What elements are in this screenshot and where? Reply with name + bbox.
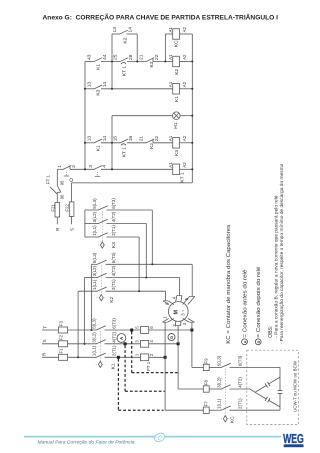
motor lead 2 bbox=[177, 326, 179, 344]
svg-text:22: 22 bbox=[154, 54, 160, 60]
svg-text:F22: F22 bbox=[64, 203, 69, 211]
wire: control rung to K3 coil bbox=[85, 142, 94, 144]
junction dots control bbox=[84, 88, 86, 90]
wire pole R to motor lead 1 bbox=[149, 356, 165, 358]
svg-text:1(L1): 1(L1) bbox=[92, 345, 97, 356]
svg-text:4(T2): 4(T2) bbox=[111, 331, 116, 342]
svg-text:13: 13 bbox=[86, 82, 92, 88]
svg-text:1(L1): 1(L1) bbox=[217, 398, 222, 409]
contactor K3 pole 1 bbox=[85, 209, 98, 211]
motor lead 4 bbox=[178, 278, 180, 296]
wire KC pole3 to capacitor delta bbox=[230, 409, 281, 411]
svg-text:F1: F1 bbox=[59, 348, 64, 354]
svg-text:A2: A2 bbox=[182, 26, 187, 32]
svg-text:3(L2): 3(L2) bbox=[92, 265, 97, 276]
wire to F8 bbox=[178, 388, 203, 390]
svg-text:1: 1 bbox=[57, 165, 63, 168]
fuse F7 bbox=[203, 407, 209, 413]
contactor K2 pole 1 bbox=[97, 260, 107, 264]
svg-text:14: 14 bbox=[128, 27, 134, 33]
K3 mechanism link bbox=[101, 211, 103, 242]
overload FT1 heater 1 bbox=[141, 327, 149, 334]
overload contact FT1 95-96 bbox=[57, 186, 61, 193]
WEG logo bbox=[283, 431, 304, 447]
fuse F22 bbox=[71, 183, 73, 202]
contact K2 21-22 (NC interlock) bbox=[146, 139, 154, 143]
KC mechanism link bbox=[224, 368, 226, 415]
svg-text:4(T2): 4(T2) bbox=[237, 377, 242, 388]
K3 output wires down to motor wires bbox=[107, 209, 153, 211]
svg-text:1(L1): 1(L1) bbox=[92, 225, 97, 236]
svg-text:- Para a conexão B, regular a: - Para a conexão B, regular a nova corre… bbox=[274, 195, 280, 337]
svg-text:3(L2): 3(L2) bbox=[92, 332, 97, 343]
svg-text:K1: K1 bbox=[96, 64, 102, 70]
svg-text:FT 1: FT 1 bbox=[146, 361, 151, 371]
svg-text:21: 21 bbox=[138, 54, 144, 60]
svg-text:13: 13 bbox=[86, 136, 92, 142]
contactor K2 pole 3 bbox=[97, 287, 107, 291]
svg-text:D: D bbox=[169, 336, 174, 339]
svg-text:F21: F21 bbox=[51, 203, 56, 211]
svg-text:KT 1: KT 1 bbox=[122, 147, 128, 158]
svg-text:A: A bbox=[243, 340, 247, 343]
wire KC pole1 to capacitor delta bbox=[230, 366, 281, 368]
svg-text:5(L3): 5(L3) bbox=[217, 355, 222, 366]
svg-text:A1: A1 bbox=[168, 54, 173, 60]
fuse F8 bbox=[203, 386, 209, 392]
svg-text:S: S bbox=[69, 228, 74, 231]
svg-text:A2: A2 bbox=[182, 81, 187, 87]
contactor K1 pole 3 bbox=[96, 353, 106, 357]
wire: node B vertical (upper) bbox=[111, 34, 113, 89]
wire to F7 bbox=[165, 409, 203, 411]
legend: marker A bbox=[242, 339, 248, 345]
svg-text:F2: F2 bbox=[59, 334, 64, 340]
phase line T bbox=[42, 329, 59, 331]
motor lead 1 bbox=[164, 322, 166, 357]
K1 mechanism link bbox=[99, 331, 101, 361]
svg-text:- Para reenergização do capaci: - Para reenergização do capacitor, respe… bbox=[279, 163, 285, 344]
K2 mechanism link bbox=[100, 265, 102, 294]
svg-text:K2: K2 bbox=[109, 296, 115, 302]
wire: node B vertical (lower) bbox=[111, 116, 113, 170]
connection marker A (antes do rele) bbox=[117, 334, 126, 343]
svg-text:FT 1: FT 1 bbox=[46, 174, 51, 184]
K2 actuator bbox=[99, 295, 103, 301]
wire: control right rail bbox=[191, 34, 193, 183]
contact K1 13-14 (seal) bbox=[94, 139, 102, 143]
svg-text:F9: F9 bbox=[204, 358, 209, 364]
tap line D phase R down bbox=[164, 359, 166, 410]
svg-text:A2: A2 bbox=[182, 54, 187, 60]
svg-text:= Conexão depois do relé: = Conexão depois do relé bbox=[256, 266, 262, 337]
KC actuator bbox=[223, 416, 227, 422]
svg-text:3 ~: 3 ~ bbox=[180, 309, 185, 316]
svg-text:14: 14 bbox=[102, 82, 108, 88]
motor lead 3 bbox=[191, 322, 193, 330]
contactor coil K3 bbox=[173, 138, 180, 149]
indicator lamp H1 bbox=[173, 112, 181, 120]
capacitor C2 (delta side) bbox=[255, 392, 266, 399]
svg-text:H1: H1 bbox=[173, 122, 179, 129]
tap squares (D) bbox=[190, 329, 193, 332]
contactor K3 pole 3 bbox=[85, 236, 98, 238]
svg-text:22: 22 bbox=[154, 136, 160, 142]
pushbutton S0 (NC) bbox=[63, 166, 71, 170]
phase line R bbox=[42, 356, 59, 358]
contactor K1 pole 1 bbox=[96, 326, 106, 330]
wire: K2 13-14 bypass branch bbox=[112, 33, 120, 35]
tap line D phase S down bbox=[177, 345, 179, 389]
svg-text:UCW-T ou MCW ou BCW: UCW-T ou MCW ou BCW bbox=[292, 360, 297, 412]
svg-text:OBS:: OBS: bbox=[268, 326, 274, 338]
svg-text:KC: KC bbox=[229, 416, 235, 423]
contactor KC pole 2 bbox=[209, 388, 221, 390]
svg-text:K1: K1 bbox=[96, 145, 102, 151]
svg-text:D: D bbox=[257, 340, 261, 343]
svg-text:A2: A2 bbox=[182, 162, 187, 168]
wire to F9 bbox=[192, 366, 203, 368]
svg-text:5(L3): 5(L3) bbox=[92, 252, 97, 263]
wire: H1 lamp rung bbox=[112, 115, 173, 117]
svg-text:28: 28 bbox=[128, 54, 134, 60]
wire: bottom control feed from F22 to rail bbox=[72, 182, 193, 184]
timed contact KT1 15-18 bbox=[120, 139, 128, 143]
svg-text:= Conexão antes do relé: = Conexão antes do relé bbox=[243, 269, 249, 337]
svg-text:K3: K3 bbox=[174, 150, 180, 156]
pushbutton S1 (NO, start) bbox=[94, 166, 102, 170]
page number badge 25 bbox=[153, 431, 166, 443]
svg-text:K1: K1 bbox=[174, 96, 180, 102]
svg-text:KT 1: KT 1 bbox=[122, 66, 128, 77]
svg-text:A1: A1 bbox=[168, 26, 173, 32]
tap squares (A) bbox=[130, 329, 133, 332]
wire pole T to motor lead 3 bbox=[149, 329, 192, 331]
svg-text:18: 18 bbox=[128, 136, 134, 142]
timed contact KT1 25-28 bbox=[120, 58, 128, 62]
K3 star bar bbox=[84, 210, 86, 237]
svg-text:4(T2): 4(T2) bbox=[111, 265, 116, 276]
dashed tap A phase S bbox=[124, 345, 126, 391]
capacitor C1 (delta side) bbox=[255, 385, 266, 392]
svg-text:5(L3): 5(L3) bbox=[92, 318, 97, 329]
wire: control rung S0-S1-KT1 bbox=[57, 168, 63, 170]
svg-text:KC: KC bbox=[174, 40, 180, 47]
svg-text:13: 13 bbox=[112, 27, 118, 33]
svg-text:6(T3): 6(T3) bbox=[111, 318, 116, 329]
svg-text:K1: K1 bbox=[110, 363, 116, 369]
footer rule bbox=[24, 436, 281, 438]
wire: control rung to K1 coil bbox=[85, 88, 94, 90]
svg-text:F7: F7 bbox=[204, 401, 209, 407]
capacitor bank dashed box bbox=[247, 350, 298, 424]
connection marker D (depois do rele) bbox=[168, 334, 175, 341]
svg-text:6(T3): 6(T3) bbox=[111, 252, 116, 263]
svg-text:4(T2): 4(T2) bbox=[111, 211, 116, 222]
fuse F3 bbox=[59, 327, 68, 333]
svg-text:2(T1): 2(T1) bbox=[111, 345, 116, 356]
svg-text:F3: F3 bbox=[59, 321, 64, 327]
contact K3 13-14 bbox=[94, 85, 102, 89]
svg-text:K2: K2 bbox=[174, 68, 180, 74]
svg-text:95: 95 bbox=[59, 180, 64, 185]
phase line S bbox=[42, 343, 59, 345]
svg-text:Manual Para Correção do Fator: Manual Para Correção do Fator de Potênci… bbox=[38, 439, 135, 445]
wire: node A vertical bbox=[84, 62, 86, 170]
svg-text:F8: F8 bbox=[204, 380, 209, 386]
contactor K1 pole 2 bbox=[96, 340, 106, 344]
legend: marker D bbox=[255, 339, 261, 345]
wire pole S to motor lead 2 bbox=[149, 343, 178, 345]
svg-text:A1: A1 bbox=[168, 135, 173, 141]
FT1 pointer stroke bbox=[50, 187, 57, 194]
svg-text:3(L2): 3(L2) bbox=[217, 377, 222, 388]
contactor KC pole 1 bbox=[209, 366, 221, 368]
svg-text:5(L3): 5(L3) bbox=[92, 198, 97, 209]
contactor coil K1 bbox=[173, 84, 180, 95]
svg-text:2(T1): 2(T1) bbox=[111, 225, 116, 236]
svg-text:3(L2): 3(L2) bbox=[92, 211, 97, 222]
svg-text:A1: A1 bbox=[168, 81, 173, 87]
fuse F21 bbox=[55, 203, 60, 218]
wire KC pole2 to capacitor delta bbox=[230, 388, 251, 390]
motor lead 5 bbox=[191, 264, 193, 296]
svg-text:WEG: WEG bbox=[283, 431, 304, 446]
fuse F2 bbox=[59, 341, 68, 347]
overload FT1 heater 3 bbox=[141, 354, 149, 361]
svg-text:21: 21 bbox=[138, 136, 144, 142]
K2 output wires to motor bbox=[106, 263, 153, 265]
svg-text:96: 96 bbox=[60, 194, 65, 199]
contact K3 21-22 (NC interlock) bbox=[146, 58, 154, 62]
capacitor C3 (delta side) bbox=[279, 377, 281, 390]
svg-text:6(T3): 6(T3) bbox=[111, 198, 116, 209]
fuse F9 bbox=[203, 364, 209, 370]
wire: S0 rung supply from FT1 bbox=[56, 169, 58, 185]
svg-text:K2: K2 bbox=[123, 37, 129, 43]
svg-text:A1: A1 bbox=[168, 162, 173, 168]
contactor K3 pole 2 bbox=[85, 223, 98, 225]
contactor K2 pole 2 bbox=[97, 273, 107, 277]
tap line D phase T down bbox=[191, 332, 193, 368]
svg-text:2(T1): 2(T1) bbox=[111, 279, 116, 290]
svg-text:4: 4 bbox=[102, 165, 108, 168]
svg-text:6(T3): 6(T3) bbox=[237, 355, 242, 366]
motor M 3~ bbox=[168, 302, 188, 322]
K1 actuator bbox=[98, 361, 102, 367]
svg-text:14: 14 bbox=[102, 136, 108, 142]
svg-text:S: S bbox=[42, 339, 47, 342]
svg-text:M: M bbox=[174, 310, 180, 315]
svg-text:Anexo G: CORREÇÃO PARA CHAVE: Anexo G: CORREÇÃO PARA CHAVE DE PARTIDA … bbox=[43, 13, 279, 22]
svg-text:KT 1: KT 1 bbox=[180, 172, 186, 183]
K3 actuator bbox=[100, 242, 104, 248]
svg-text:25: 25 bbox=[112, 54, 118, 60]
fuse F1 bbox=[59, 354, 68, 360]
timer coil KT1 bbox=[173, 164, 180, 175]
overload FT1 heater 2 bbox=[141, 340, 149, 347]
svg-text:2: 2 bbox=[71, 165, 77, 168]
contact K1 43-44 bbox=[94, 58, 102, 62]
wire: KC coil branch bbox=[164, 34, 166, 62]
wire: control rung to K2 coil bbox=[85, 61, 94, 63]
K2 feed wires from phases bbox=[92, 263, 98, 265]
contactor KC pole 3 bbox=[209, 409, 221, 411]
svg-text:44: 44 bbox=[102, 54, 108, 60]
contactor coil K2 bbox=[173, 56, 180, 67]
contactor coil KC bbox=[173, 29, 180, 40]
wire: bypass drop to rung bbox=[136, 34, 138, 62]
svg-text:15: 15 bbox=[112, 136, 118, 142]
svg-text:2(T1): 2(T1) bbox=[237, 398, 242, 409]
svg-text:K3: K3 bbox=[96, 89, 102, 95]
svg-text:1(L1): 1(L1) bbox=[92, 279, 97, 290]
svg-text:43: 43 bbox=[86, 54, 92, 60]
svg-text:K2: K2 bbox=[149, 143, 155, 149]
svg-text:3: 3 bbox=[88, 165, 94, 168]
motor lead 6 bbox=[165, 291, 167, 301]
svg-text:T: T bbox=[42, 326, 47, 329]
dashed tap A phase R bbox=[117, 359, 119, 410]
svg-text:K3: K3 bbox=[111, 242, 117, 248]
svg-text:A2: A2 bbox=[182, 135, 187, 141]
junction dots phase feeds bbox=[90, 329, 92, 331]
svg-text:KC = Contator de manobra dos C: KC = Contator de manobra dos Capacitores bbox=[226, 224, 232, 344]
svg-text:K3: K3 bbox=[149, 61, 155, 67]
contact K2 13-14 bbox=[119, 30, 127, 34]
dashed tap A phase T bbox=[131, 332, 133, 373]
